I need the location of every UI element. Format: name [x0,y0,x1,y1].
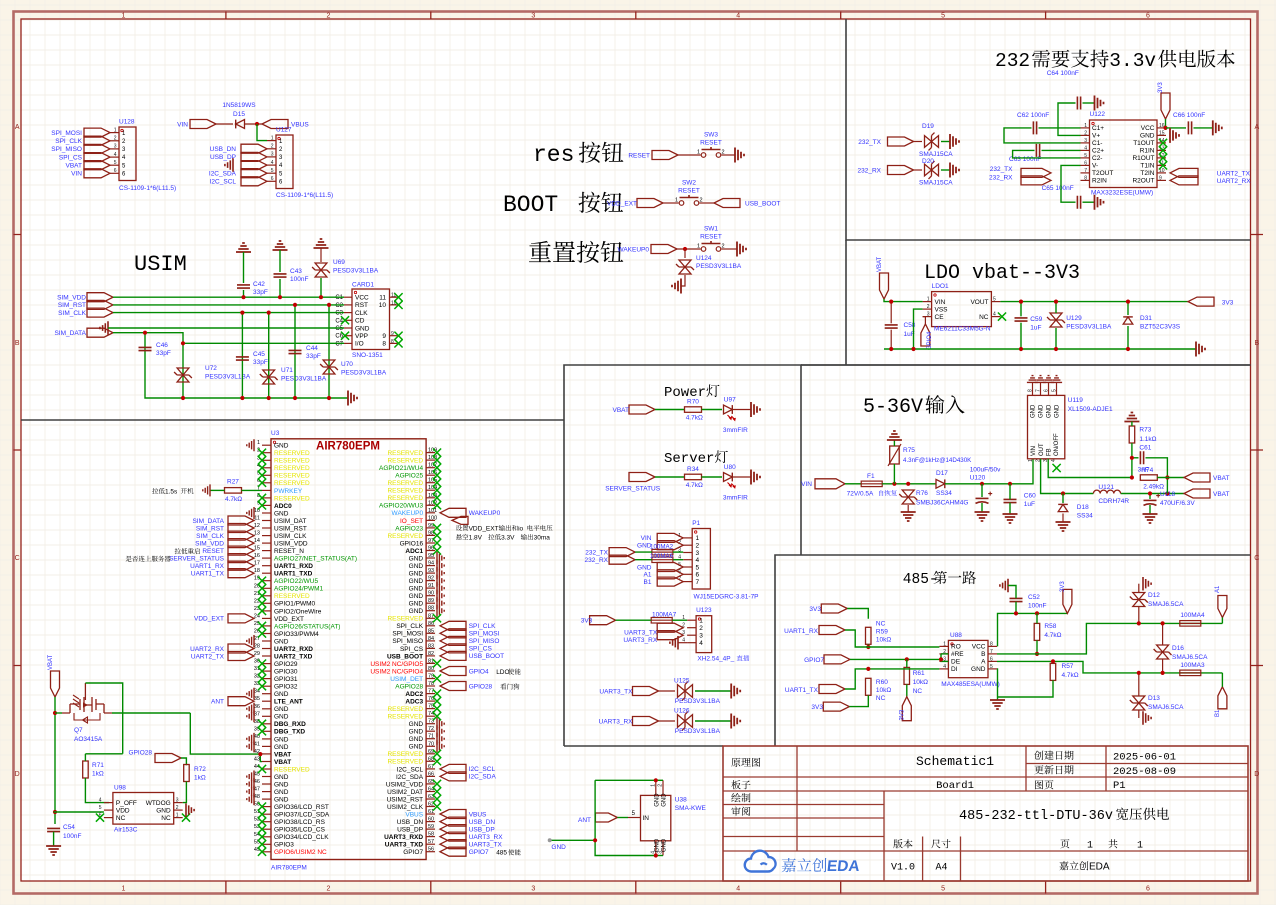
X mark [433,614,441,622]
svg-text:Air153C: Air153C [114,827,138,834]
inductor U121 CDRH74R [1093,484,1129,505]
TVS U71 PESD3V3L1BA [260,367,327,384]
svg-text:CE: CE [935,314,945,321]
svg-text:PWRKEY: PWRKEY [274,488,303,495]
X mark [433,712,441,720]
ground [437,733,444,745]
svg-text:USB_DP: USB_DP [469,826,495,833]
node SIM_VDD [57,293,113,302]
svg-text:GND: GND [274,443,289,450]
svg-text:485-: 485- [903,572,938,588]
svg-text:VIN: VIN [1031,446,1037,456]
svg-text:R73: R73 [1139,427,1151,434]
svg-text:AGPIO26/STATUS(AT): AGPIO26/STATUS(AT) [274,623,340,630]
svg-text:1.8V: 1.8V [469,534,483,541]
junction [1130,475,1134,479]
svg-text:V+: V+ [1092,133,1100,140]
X mark [258,765,266,773]
diode D15 1N5819WS [216,102,262,128]
svg-text:GND: GND [971,666,986,673]
svg-text:R60: R60 [876,679,888,686]
svg-text:USB_BOOT: USB_BOOT [469,653,504,660]
wire [733,476,751,478]
svg-text:ME6211C33M5G-N: ME6211C33M5G-N [934,326,991,333]
wire [893,464,895,484]
svg-text:ADC0: ADC0 [274,503,292,510]
node UART3_RX [599,717,659,726]
svg-text:SIM_CLK: SIM_CLK [58,310,86,317]
X mark [258,682,266,690]
node 232_TX [585,548,635,557]
svg-text:1N5819WS: 1N5819WS [222,102,256,109]
svg-text:4: 4 [943,664,946,670]
X mark [258,720,266,728]
svg-text:3V3: 3V3 [899,709,905,720]
svg-text:RESERVED: RESERVED [274,480,310,487]
wire [678,642,687,644]
svg-text:6: 6 [1084,160,1087,166]
svg-text:1: 1 [114,127,117,133]
svg-text:MAX485ESA(UMW): MAX485ESA(UMW) [941,681,1000,688]
svg-text:100MA3: 100MA3 [1180,662,1205,669]
svg-text:3: 3 [699,633,703,640]
svg-text:10kΩ: 10kΩ [876,687,891,694]
svg-text:1kΩ: 1kΩ [194,775,206,782]
X mark [258,577,266,585]
svg-text:GPIO35/LCD_CS: GPIO35/LCD_CS [274,827,326,834]
node USB_DP [440,825,495,834]
TVS D12 SMAJ6.5CA [1130,592,1184,608]
svg-text:232_RX: 232_RX [585,557,609,564]
node SPI_CLK [55,136,110,145]
fuse 100MA7 [651,612,676,624]
svg-text:4: 4 [114,152,117,158]
ground [437,740,444,752]
svg-text:GND: GND [409,593,424,600]
resistor R71 1k [83,761,105,778]
svg-text:C2: C2 [335,303,343,309]
svg-text:VDD_EXT: VDD_EXT [194,616,224,623]
X mark [258,629,266,637]
svg-text:Schematic1: Schematic1 [916,754,994,769]
svg-text:UART1_TX: UART1_TX [785,687,819,694]
svg-text:83: 83 [428,643,434,649]
svg-text:GND: GND [274,736,289,743]
capacitor C65 100nF [1042,185,1081,209]
svg-text:100nF: 100nF [290,276,308,283]
resistor R59 10k NC [866,620,892,644]
svg-text:D20: D20 [922,158,934,165]
wire [677,248,701,250]
note [126,556,132,562]
connector P1 WJ15EDGRC-3.81-7P [678,520,758,601]
ground [437,590,444,602]
TVS D16 SMAJ6.5CA [1154,645,1208,661]
X mark [258,727,266,735]
svg-text:U122: U122 [1090,111,1106,118]
resistor R73 1.1k [1129,426,1156,443]
svg-text:GND: GND [409,571,424,578]
junction [241,295,245,299]
svg-text:6: 6 [1146,886,1150,893]
wire [1127,302,1129,315]
X mark [258,810,266,818]
X mark [258,848,266,856]
TVS U129 PESD3V3L1BA [1047,313,1112,331]
wire [663,202,679,204]
svg-text:2: 2 [326,13,330,20]
svg-text:RESERVED: RESERVED [387,450,423,457]
node VIN [71,169,110,178]
capacitor C60 1uF [1004,493,1037,509]
svg-text:F1: F1 [867,473,875,480]
svg-text:3.3V: 3.3V [501,534,515,541]
junction [255,122,259,126]
svg-text:R72: R72 [194,766,206,773]
junction [1163,126,1167,130]
node GPIO7 [440,847,521,857]
X mark [433,802,441,810]
node GPIO4 [440,667,521,677]
svg-text:5: 5 [99,805,102,811]
ground [437,582,444,594]
svg-text:Board1: Board1 [936,780,974,792]
svg-text:LDO1: LDO1 [932,283,949,290]
wire [279,250,281,272]
svg-text:VBAT: VBAT [274,751,291,758]
svg-text:GND: GND [409,736,424,743]
svg-text:NC: NC [913,688,923,695]
svg-text:USB_BOOT: USB_BOOT [745,200,780,207]
wire [1138,584,1140,592]
svg-text:5: 5 [114,160,117,166]
ground [247,786,254,798]
svg-text:91: 91 [428,583,434,589]
svg-text:RESERVED: RESERVED [387,533,423,540]
IC U3 AIR780EPM [271,430,426,872]
svg-text:6: 6 [696,572,700,579]
svg-text:SPI_CLK: SPI_CLK [55,138,82,145]
svg-text:NC: NC [876,620,886,627]
svg-text:D13: D13 [1148,695,1160,702]
X mark [433,780,441,788]
svg-text:D17: D17 [936,470,948,477]
svg-text:C63 100nF: C63 100nF [1009,156,1041,163]
X mark [258,464,266,472]
wire [1036,613,1038,623]
svg-text:15: 15 [1159,130,1165,136]
wire [1194,127,1213,129]
wire OUT [1041,459,1094,494]
svg-text:GPIO7: GPIO7 [804,657,824,664]
svg-text:ANT: ANT [211,699,224,706]
svg-text:GND: GND [1055,404,1061,418]
svg-text:1uF: 1uF [1030,325,1041,332]
node I2C_SDA [440,772,496,781]
svg-text:USIM2_RST: USIM2_RST [387,796,424,803]
X mark [433,471,441,479]
svg-text:C59: C59 [1030,316,1042,323]
TVS R76 SMBJ36CAHM4G [899,490,968,507]
svg-text:UART1_RX: UART1_RX [190,563,225,570]
svg-text:3: 3 [531,886,535,893]
svg-text:GND: GND [274,510,289,517]
svg-text:SW1: SW1 [704,226,718,233]
junction [143,331,147,335]
node GPIO7 [804,655,850,664]
svg-text:UART1_TXD: UART1_TXD [274,571,313,578]
X mark [258,456,266,464]
svg-text:232: 232 [995,50,1030,72]
wire [279,279,281,297]
X mark [433,486,441,494]
capacitor C62 100nF [1017,112,1049,134]
ground [236,243,251,252]
node 232_RX [585,555,636,564]
svg-text:SIM_VDD: SIM_VDD [57,295,86,302]
connector U38 SMA-KWE [628,780,707,855]
label: reset button [529,241,551,262]
node ANT [578,813,617,824]
svg-text:VOUT: VOUT [970,299,988,306]
svg-text:GND: GND [1047,404,1053,418]
svg-text:84: 84 [428,636,434,642]
svg-text:UART3_TX: UART3_TX [469,842,503,849]
svg-text:GND: GND [409,586,424,593]
node A1 [644,570,684,579]
title block text [731,751,1176,874]
svg-text:SMAJ6.5CA: SMAJ6.5CA [1148,704,1184,711]
IC U122 MAX3232ESE(UMW) [1081,111,1168,197]
svg-text:I2C_SCL: I2C_SCL [397,766,424,773]
X mark [258,675,266,683]
svg-text:AGPIO21/WU4: AGPIO21/WU4 [379,465,423,472]
svg-text:SMAJ6.5CA: SMAJ6.5CA [1172,654,1208,661]
wire [1138,673,1140,696]
node B1 (vertical) [1215,687,1227,717]
svg-text:60: 60 [428,817,434,823]
svg-text:RESERVED: RESERVED [274,593,310,600]
junction [181,341,185,345]
svg-text:D18: D18 [1077,504,1089,511]
svg-text:C62 100nF: C62 100nF [1017,112,1049,119]
svg-text:D31: D31 [1140,315,1152,322]
wire [635,551,652,553]
svg-text:GND: GND [409,578,424,585]
svg-text:GND: GND [409,555,424,562]
ground [247,635,254,647]
node VBUS [262,120,309,129]
svg-text:100MA7: 100MA7 [652,612,677,619]
svg-text:VIN: VIN [801,481,812,488]
svg-text:5: 5 [696,564,700,571]
svg-text:232_RX: 232_RX [989,174,1013,181]
TVS U126 PESD3V3L1BA [674,708,721,736]
wire [702,476,723,478]
svg-text:GND: GND [274,789,289,796]
node UART3_TX [599,687,658,696]
wire [1149,494,1151,500]
svg-text:NC: NC [979,314,989,321]
svg-text:8: 8 [1084,175,1087,181]
capacitor U118 470UF/6.3V [1144,491,1196,507]
svg-text:GND: GND [156,807,171,814]
note [500,684,506,690]
wire VOUT rail [1000,301,1188,303]
svg-text:D: D [1254,771,1259,778]
svg-text:USIM_VDD: USIM_VDD [274,541,308,548]
X mark [258,479,266,487]
svg-text:GPIO36/LCD_RST: GPIO36/LCD_RST [274,804,329,811]
svg-text:8: 8 [1028,389,1034,392]
junction [319,295,323,299]
svg-text:100uF/50v: 100uF/50v [970,467,1001,474]
ground (U122 GND) [1170,128,1179,143]
svg-text:36: 36 [254,704,260,710]
wire [1165,119,1167,128]
node 3V3 [811,702,849,711]
node SIM_CLK [196,531,254,540]
wire [182,343,184,398]
svg-text:P1: P1 [692,520,700,527]
TVS U70 PESD3V3L1BA [320,360,387,377]
svg-text:D12: D12 [1148,592,1160,599]
wire [882,483,936,485]
svg-text:U72: U72 [205,365,217,372]
svg-text:3V3: 3V3 [811,704,823,711]
varistor R75 [888,444,972,466]
svg-text:4.7kΩ: 4.7kΩ [1044,632,1061,639]
svg-text:GND: GND [409,721,424,728]
X mark [258,818,266,826]
wire [945,459,1033,484]
IC U119 XL1509-ADJE1 [1028,382,1113,462]
svg-text:4: 4 [993,312,996,318]
X mark [258,494,266,502]
section box: 485 [775,365,1251,746]
svg-text:4: 4 [650,851,656,854]
svg-text:OUT: OUT [1039,443,1045,456]
junction [327,303,331,307]
svg-text:GND: GND [1031,404,1037,418]
X mark [258,599,266,607]
svg-text:R34: R34 [687,466,699,473]
SIM card connector CARD1 SNO-1351 [333,259,403,359]
svg-text:Power: Power [664,385,706,401]
svg-text:U123: U123 [696,607,712,614]
junction [267,311,271,315]
svg-text:VBAT: VBAT [877,256,883,272]
svg-text:3: 3 [696,550,700,557]
TVS U69 PESD3V3L1BA [312,263,330,277]
svg-text:USIM2 NC/GPIO5: USIM2 NC/GPIO5 [370,661,423,668]
wire RO [845,630,939,647]
X mark [258,584,266,592]
svg-text:USIM: USIM [134,252,187,277]
svg-text:RESERVED: RESERVED [274,495,310,502]
ground [247,710,254,722]
node VDD_EXT [194,614,254,623]
svg-text:7: 7 [1036,389,1042,392]
svg-text:92: 92 [428,576,434,582]
X mark [258,622,266,630]
capacitor C64 100nF [1047,70,1081,110]
svg-text:U126: U126 [674,708,690,715]
svg-text:2: 2 [1084,130,1087,136]
svg-text:71: 71 [428,734,434,740]
node UART2_TX [191,652,254,661]
X mark [433,757,441,765]
svg-text:SS34: SS34 [936,490,952,497]
svg-text:2.49kΩ: 2.49kΩ [1143,484,1164,491]
capacitor C46 33pF [139,342,171,357]
svg-text:GND: GND [409,601,424,608]
svg-text:4: 4 [736,886,740,893]
svg-text:AO3415A: AO3415A [74,736,103,743]
ground (U98 GND) [186,803,194,817]
X mark [433,501,441,509]
X mark [433,524,441,532]
svg-text:PESD3V3L1BA: PESD3V3L1BA [281,376,327,383]
svg-text:3V3: 3V3 [1222,299,1234,306]
svg-text:8: 8 [382,341,386,348]
svg-text:GPIO32: GPIO32 [274,684,298,691]
svg-text:RESET: RESET [678,188,700,195]
wire [181,758,186,765]
svg-text:GPIO1/PWM0: GPIO1/PWM0 [274,601,316,608]
svg-text:VIN: VIN [641,535,652,542]
svg-text:33pF: 33pF [306,353,321,360]
ground [247,507,254,519]
svg-text:GND: GND [637,564,652,571]
svg-text:GND: GND [274,781,289,788]
node SIM_VDD [195,539,254,548]
node WAKEUP0 [440,508,501,517]
wire ANT loop [595,779,656,781]
svg-text:33pF: 33pF [156,350,171,357]
wire [733,409,751,411]
X mark [433,479,441,487]
svg-text:3: 3 [114,144,117,150]
svg-text:T1IN: T1IN [1140,163,1154,170]
svg-text:SW3: SW3 [704,132,718,139]
svg-text:A: A [1254,124,1259,131]
wire [684,249,686,258]
X mark [433,449,441,457]
svg-text:UART3_RX: UART3_RX [599,719,634,726]
svg-text:1: 1 [1028,459,1034,462]
svg-text:8: 8 [990,641,993,647]
svg-text:RESERVED: RESERVED [387,751,423,758]
svg-text:DBG_RXD: DBG_RXD [274,721,306,728]
ground [437,567,444,579]
svg-text:46: 46 [254,779,260,785]
svg-text:R27: R27 [227,479,239,486]
fuse 100MA2 [650,544,674,555]
svg-text:GND: GND [274,797,289,804]
svg-text:SERVER_STATUS: SERVER_STATUS [169,555,225,562]
svg-text:XH2.54_4P_: XH2.54_4P_ [697,656,734,663]
svg-text:1: 1 [257,440,260,446]
svg-text:3mmFIR: 3mmFIR [723,427,748,434]
node VBAT (vertical) [877,256,889,299]
ground [1143,711,1151,725]
svg-text:VIN: VIN [935,299,946,306]
svg-text:LDO vbat--3V3: LDO vbat--3V3 [924,262,1080,285]
svg-text:2: 2 [927,304,930,310]
U3 left pins [254,440,357,856]
svg-text:WAKEUP0: WAKEUP0 [469,510,501,517]
